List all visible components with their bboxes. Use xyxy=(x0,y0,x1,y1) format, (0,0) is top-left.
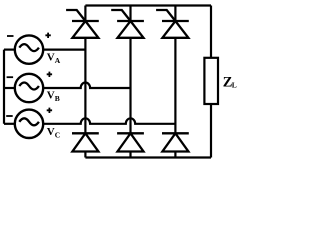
wire stub VB minus xyxy=(4,87,16,89)
label VA xyxy=(47,51,61,65)
svg-text:C: C xyxy=(55,130,60,139)
svg-text:V: V xyxy=(47,126,55,138)
minus sign VB xyxy=(7,76,14,78)
wire leg 1 (phase A node) xyxy=(84,6,86,158)
plus sign VB xyxy=(47,72,52,77)
svg-text:L: L xyxy=(232,80,237,89)
thyristor T1 (top left) xyxy=(66,10,99,38)
AC source VB xyxy=(15,74,43,102)
diode D1 (bottom left) xyxy=(72,133,99,151)
bottom DC rail xyxy=(85,156,211,158)
minus sign VA xyxy=(7,35,14,37)
plus sign VA xyxy=(45,33,50,38)
wire leg 3 (phase C node) xyxy=(174,6,176,158)
AC source VA xyxy=(15,35,43,63)
diode D2 (bottom middle) xyxy=(117,133,144,151)
AC source VC xyxy=(15,110,43,138)
diode D3 (bottom right) xyxy=(162,133,189,151)
label VB xyxy=(47,89,60,103)
wire right side bottom (load to rail) xyxy=(210,104,212,158)
wire right side top (rail to load) xyxy=(210,6,212,58)
label Z_L xyxy=(223,74,237,90)
thyristor T3 (top right) xyxy=(156,10,189,38)
load Z_L box xyxy=(204,58,218,104)
wire phase A xyxy=(43,48,85,50)
wire leg 2 (phase B node) xyxy=(129,6,131,158)
svg-text:V: V xyxy=(47,89,55,101)
wire phase C with hops over legs 1 and 2 xyxy=(43,118,175,124)
plus sign VC xyxy=(47,108,52,113)
left neutral bus wire xyxy=(3,50,5,124)
label VC xyxy=(47,126,61,140)
top DC rail xyxy=(85,4,211,6)
wire phase B with hop over leg 1 xyxy=(43,82,130,88)
minus sign VC xyxy=(6,115,13,117)
svg-text:V: V xyxy=(47,51,55,63)
wire stub VA minus xyxy=(4,48,16,50)
thyristor T2 (top middle) xyxy=(111,10,144,38)
svg-text:B: B xyxy=(55,94,60,103)
wire stub VC minus xyxy=(4,123,16,125)
svg-text:A: A xyxy=(55,56,61,65)
